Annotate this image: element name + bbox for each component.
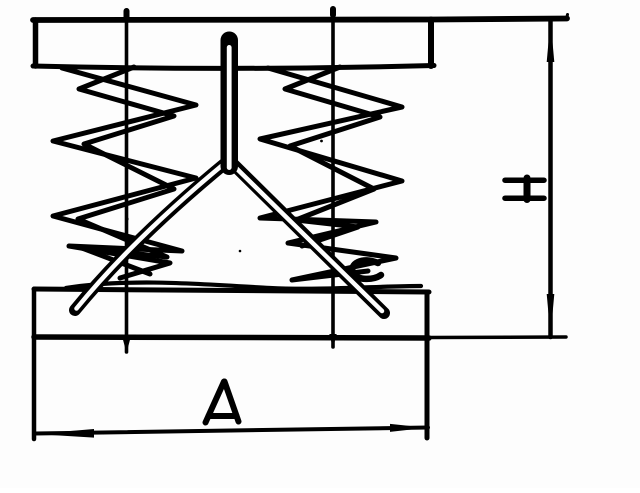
scan speck near left axis: [125, 217, 128, 220]
label H (rotated): [505, 178, 544, 200]
wishbone right leg white core: [232, 164, 382, 311]
top plate left edge: [33, 20, 39, 66]
right spring bottom hook: [352, 260, 381, 279]
A dimension right arrow: [390, 424, 427, 432]
top extension line end tick: [567, 15, 568, 20]
H dimension line: [548, 19, 553, 337]
central pin white core: [227, 45, 232, 170]
H dimension bottom arrow: [547, 294, 555, 336]
label A: [206, 382, 239, 423]
A dimension left arrow: [35, 429, 94, 438]
wishbone left leg white core: [77, 163, 226, 309]
left spring inner strand: [78, 67, 174, 274]
left spring axis bottom arrow: [123, 339, 130, 353]
right spring inner strand: [285, 67, 380, 246]
bottom plate top line: [34, 289, 429, 292]
scan speck near right axis: [320, 140, 323, 143]
scan speck below pin cap: [239, 250, 242, 253]
wishbone left leg outline: [75, 161, 228, 310]
wishbone right leg outline: [230, 161, 384, 313]
left spring axis line: [125, 10, 129, 352]
right spring axis top tick: [330, 9, 336, 15]
springs bottom coil sweep line: [66, 283, 421, 289]
left spring outer strand: [53, 68, 196, 278]
top plate top line with H extension: [33, 19, 567, 21]
top plate right edge: [428, 20, 434, 67]
left spring axis top tick: [124, 11, 130, 18]
central pin outline: [221, 32, 239, 176]
top plate bottom line: [33, 66, 434, 69]
right spring axis line: [331, 8, 335, 347]
H extension line bottom: [429, 335, 566, 339]
A dimension line: [35, 428, 428, 434]
bottom plate right edge extended down (A extension line): [425, 292, 430, 438]
right spring outer strand: [260, 68, 402, 280]
bottom plate bottom line with H extension: [34, 337, 429, 338]
bottom plate left edge extended down (A extension line): [32, 289, 37, 439]
H dimension top arrow: [547, 20, 555, 62]
right spring axis bottom arrow: [329, 334, 336, 348]
